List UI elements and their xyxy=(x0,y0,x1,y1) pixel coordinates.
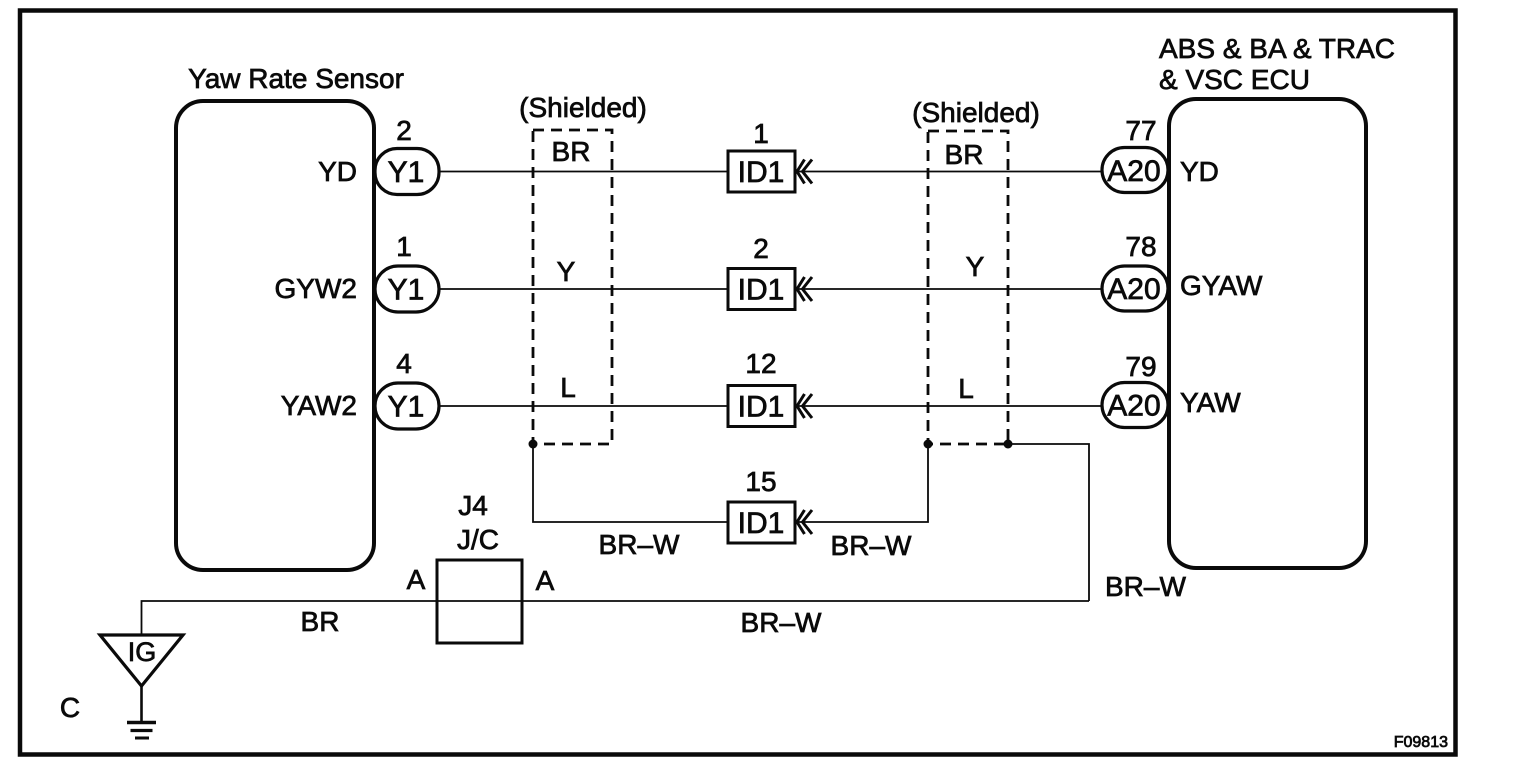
svg-text:79: 79 xyxy=(1125,351,1156,382)
svg-text:1: 1 xyxy=(396,231,412,262)
svg-text:(Shielded): (Shielded) xyxy=(519,92,647,123)
svg-text:A: A xyxy=(536,565,555,596)
svg-text:ID1: ID1 xyxy=(738,156,785,189)
svg-text:J4: J4 xyxy=(458,490,488,521)
svg-text:77: 77 xyxy=(1125,115,1156,146)
svg-text:BR–W: BR–W xyxy=(1105,571,1186,602)
svg-text:2: 2 xyxy=(753,233,769,264)
svg-text:15: 15 xyxy=(745,466,776,497)
svg-text:Y1: Y1 xyxy=(388,156,425,189)
svg-text:Y1: Y1 xyxy=(388,274,425,307)
svg-text:C: C xyxy=(60,692,80,723)
svg-text:J/C: J/C xyxy=(457,524,499,555)
svg-text:L: L xyxy=(560,372,576,403)
svg-text:IG: IG xyxy=(128,637,157,667)
svg-text:YD: YD xyxy=(318,156,357,187)
svg-text:YD: YD xyxy=(1180,156,1219,187)
svg-text:Y1: Y1 xyxy=(388,391,425,424)
svg-text:78: 78 xyxy=(1125,231,1156,262)
svg-text:12: 12 xyxy=(745,348,776,379)
svg-text:YAW: YAW xyxy=(1180,387,1241,418)
svg-text:GYW2: GYW2 xyxy=(275,273,357,304)
svg-text:GYAW: GYAW xyxy=(1180,270,1263,301)
svg-text:A20: A20 xyxy=(1107,155,1160,188)
svg-text:Y: Y xyxy=(557,256,576,287)
svg-text:ID1: ID1 xyxy=(738,507,785,540)
svg-text:BR: BR xyxy=(945,139,984,170)
svg-text:BR–W: BR–W xyxy=(599,529,680,560)
svg-text:BR: BR xyxy=(301,606,340,637)
svg-text:A: A xyxy=(407,564,426,595)
svg-text:ID1: ID1 xyxy=(738,274,785,307)
svg-text:& VSC ECU: & VSC ECU xyxy=(1159,64,1310,95)
svg-text:Y: Y xyxy=(966,251,985,282)
svg-text:4: 4 xyxy=(396,348,412,379)
svg-text:BR: BR xyxy=(552,136,591,167)
svg-text:F09813: F09813 xyxy=(1394,734,1448,751)
svg-text:BR–W: BR–W xyxy=(831,530,912,561)
svg-text:1: 1 xyxy=(753,118,769,149)
svg-text:Yaw Rate Sensor: Yaw Rate Sensor xyxy=(188,63,404,94)
svg-text:YAW2: YAW2 xyxy=(281,390,357,421)
svg-text:(Shielded): (Shielded) xyxy=(912,97,1040,128)
svg-text:A20: A20 xyxy=(1107,273,1160,306)
svg-text:L: L xyxy=(958,373,974,404)
svg-text:A20: A20 xyxy=(1107,390,1160,423)
svg-text:ABS & BA & TRAC: ABS & BA & TRAC xyxy=(1159,33,1395,64)
svg-text:BR–W: BR–W xyxy=(741,607,822,638)
svg-text:ID1: ID1 xyxy=(738,391,785,424)
svg-text:2: 2 xyxy=(396,115,412,146)
